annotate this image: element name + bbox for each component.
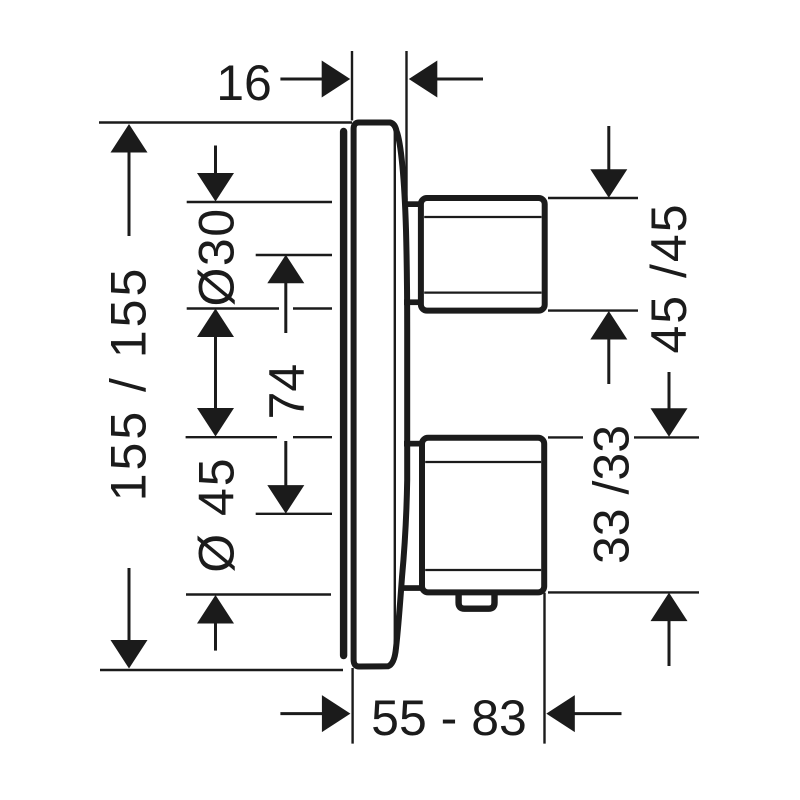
svg-text:45 /45: 45 /45: [641, 202, 697, 353]
svg-text:55 - 83: 55 - 83: [371, 690, 527, 746]
svg-text:155 / 155: 155 / 155: [101, 266, 157, 502]
svg-text:16: 16: [216, 55, 272, 111]
svg-text:Ø30: Ø30: [189, 207, 245, 306]
svg-text:Ø 45: Ø 45: [189, 456, 245, 572]
svg-text:33 /33: 33 /33: [584, 425, 640, 564]
svg-text:74: 74: [259, 364, 315, 420]
